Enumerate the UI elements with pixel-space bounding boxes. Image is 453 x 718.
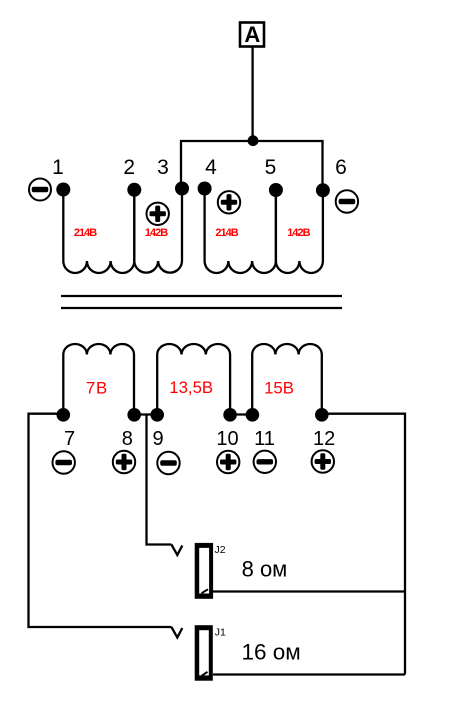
node terminal 10 xyxy=(223,408,237,422)
node terminal 2 xyxy=(127,183,141,197)
svg-text:3: 3 xyxy=(157,156,169,179)
svg-text:142В: 142В xyxy=(145,227,168,239)
wire pin 12 to right bus xyxy=(322,414,405,675)
polarity symbol plus at pin 10 xyxy=(217,451,239,473)
svg-text:5: 5 xyxy=(265,156,277,179)
wire A to bus xyxy=(251,47,253,141)
wire contact V of J2 xyxy=(171,545,182,556)
primary winding 1-2 xyxy=(63,190,134,273)
svg-text:7: 7 xyxy=(64,428,75,450)
node terminal 8 xyxy=(127,408,141,422)
wire pin 7 to left bus down to J1 xyxy=(29,414,172,627)
wire junction 8-9 down to J2 xyxy=(147,415,172,545)
transformer core line 2 xyxy=(61,307,342,309)
svg-text:12: 12 xyxy=(313,428,335,450)
svg-text:6: 6 xyxy=(335,156,347,179)
svg-text:214В: 214В xyxy=(74,227,97,239)
svg-text:13,5В: 13,5В xyxy=(169,378,213,397)
secondary winding 9-10 xyxy=(157,344,230,415)
secondary winding 11-12 xyxy=(252,344,322,415)
connector J1 body xyxy=(195,625,213,681)
wire link 8-9 xyxy=(134,413,157,415)
svg-text:J1: J1 xyxy=(215,627,226,639)
svg-text:J2: J2 xyxy=(215,544,226,556)
transformer core line 1 xyxy=(61,295,342,297)
polarity symbol plus at pin 4 xyxy=(218,191,240,213)
svg-text:10: 10 xyxy=(216,428,238,450)
node terminal 6 xyxy=(316,183,330,197)
svg-text:9: 9 xyxy=(152,428,163,450)
polarity symbol minus at pin 7 xyxy=(53,451,75,473)
svg-text:1: 1 xyxy=(52,156,64,179)
primary winding 2-3 xyxy=(134,190,182,273)
node terminal 1 xyxy=(56,183,70,197)
node terminal 11 xyxy=(246,408,260,422)
polarity symbol minus at pin 1 xyxy=(29,179,51,201)
wire link 10-11 xyxy=(230,413,252,415)
svg-text:214В: 214В xyxy=(215,227,238,239)
polarity symbol minus at pin 6 xyxy=(336,190,358,212)
svg-text:15В: 15В xyxy=(264,379,294,398)
node terminal 7 xyxy=(57,408,71,422)
node terminal 4 xyxy=(198,182,212,196)
node terminal 3 xyxy=(175,182,189,196)
node junction on bus xyxy=(248,135,259,146)
svg-text:4: 4 xyxy=(205,156,217,179)
connector J2 body xyxy=(195,543,213,599)
primary winding 5-6 xyxy=(276,190,323,273)
wire top bus xyxy=(181,141,323,190)
polarity symbol minus at pin 9 xyxy=(157,452,179,474)
svg-text:142В: 142В xyxy=(287,227,310,239)
node terminal 12 xyxy=(315,408,329,422)
svg-text:16 ом: 16 ом xyxy=(242,640,301,665)
node terminal 5 xyxy=(269,183,283,197)
svg-text:A: A xyxy=(244,22,260,47)
wire J1 to right bus xyxy=(213,673,405,675)
terminal A box xyxy=(240,23,264,47)
primary winding 4-5 xyxy=(205,190,276,273)
secondary winding 7-8 xyxy=(63,344,134,415)
svg-text:8: 8 xyxy=(122,428,133,450)
node terminal 9 xyxy=(150,408,164,422)
polarity symbol plus at pin 12 xyxy=(312,450,334,472)
polarity symbol plus at pin 3 xyxy=(147,203,169,225)
polarity symbol plus at pin 8 xyxy=(113,451,135,473)
svg-text:2: 2 xyxy=(123,156,135,179)
polarity symbol minus at pin 11 xyxy=(254,451,276,473)
wire contact V of J1 xyxy=(171,627,182,638)
svg-text:7В: 7В xyxy=(86,378,108,397)
svg-text:8 ом: 8 ом xyxy=(242,556,288,581)
wire J2 to right bus xyxy=(213,590,405,592)
svg-text:11: 11 xyxy=(254,428,275,450)
